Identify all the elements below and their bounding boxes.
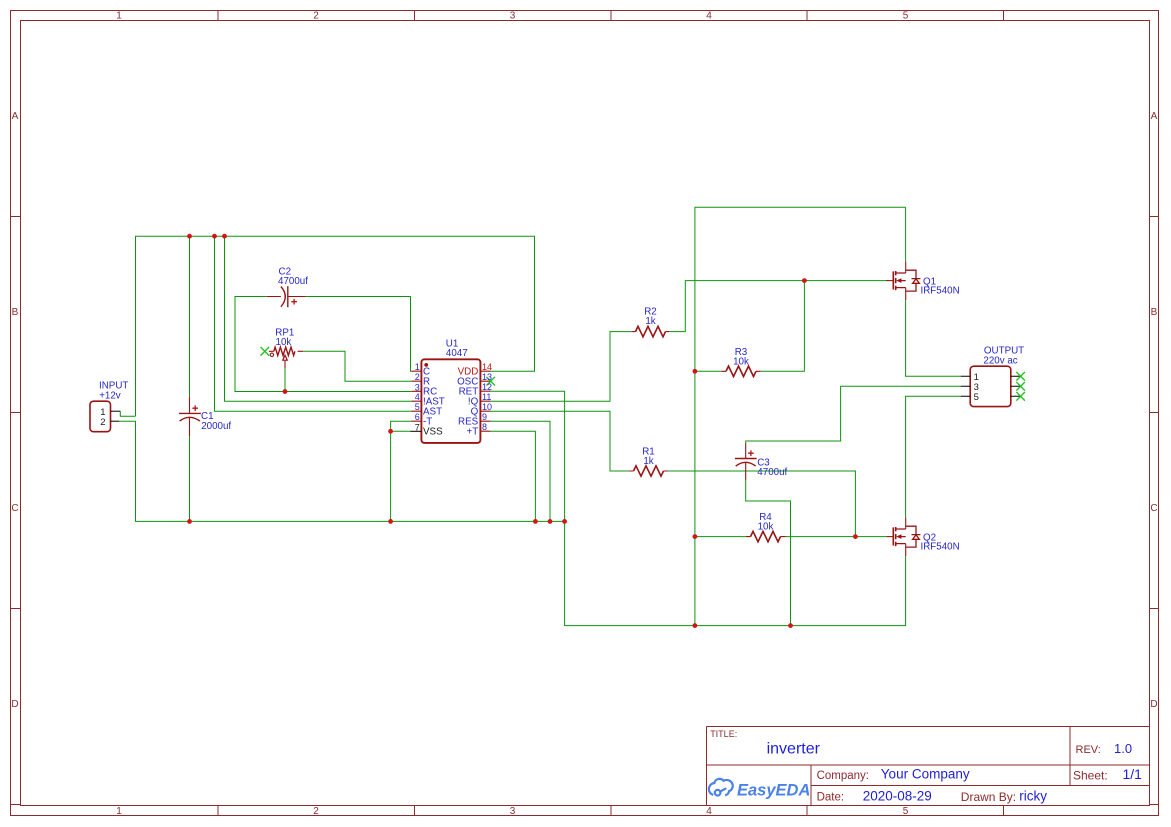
wire C3 bottom to GND rail (746, 480, 791, 625)
column labels top (116, 11, 909, 22)
svg-text:4: 4 (415, 392, 420, 402)
RP1 wiper arrow (283, 355, 288, 360)
svg-text:13: 13 (482, 372, 492, 382)
junction VSS gnd (388, 519, 393, 524)
Q2 drain stub (905, 517, 907, 529)
svg-text:2020-08-29: 2020-08-29 (863, 788, 932, 803)
wire R1 right to Q2 gate net (668, 471, 856, 537)
capacitor C1 plates (179, 412, 201, 414)
capacitor C3 plus sign (748, 450, 754, 456)
Q1 contacts (896, 273, 906, 288)
Q1 drain stub (905, 262, 907, 273)
transistor Q2 (886, 517, 920, 556)
svg-text:3: 3 (415, 382, 420, 392)
wire INPUT pin1 jog (120, 411, 135, 416)
resistor R4 leads (746, 536, 786, 538)
capacitor C2 plus sign (291, 299, 297, 305)
svg-text:Drawn By:: Drawn By: (961, 790, 1016, 804)
svg-text:11: 11 (482, 392, 491, 402)
junction R4 left (693, 534, 698, 539)
row labels right (1150, 111, 1157, 710)
wire U1 pin4 to +12V rail (225, 236, 412, 401)
OUTPUT right stubs (1011, 376, 1021, 396)
RP1 pin1 circle (270, 353, 273, 356)
svg-text:14: 14 (482, 362, 492, 372)
junction pin4 rail (222, 234, 227, 239)
svg-text:1.0: 1.0 (1114, 741, 1132, 756)
resistor R2 zigzag (636, 326, 666, 336)
junction Q2 gate R1 (853, 534, 858, 539)
wire U1 pin5 to +12V rail (215, 236, 412, 411)
svg-text:IRF540N: IRF540N (921, 542, 960, 553)
junction pin9 gnd (548, 519, 553, 524)
Q1 gate lead (886, 280, 893, 282)
svg-text:2: 2 (313, 806, 319, 817)
U1 pin 7 stub (410, 430, 421, 432)
Q1 channel segments (895, 271, 897, 290)
svg-text:1: 1 (116, 806, 122, 817)
resistor R4 zigzag (751, 531, 781, 541)
capacitor C2 plates (287, 286, 289, 307)
svg-text:D: D (11, 699, 18, 710)
svg-text:2: 2 (415, 372, 420, 382)
svg-text:IRF540N: IRF540N (921, 286, 960, 297)
svg-text:4: 4 (706, 806, 712, 817)
svg-text:5: 5 (903, 806, 909, 817)
Q1 gate bar (892, 271, 894, 289)
wire R3 right up to Q1 gate (761, 281, 805, 372)
svg-text:C: C (11, 503, 18, 514)
svg-text:9: 9 (482, 412, 487, 422)
INPUT pin 2 stub (111, 420, 120, 422)
svg-text:A: A (1151, 111, 1158, 122)
wire C1 top (189, 236, 191, 396)
wire +12V top rail with pin14 branch (136, 236, 535, 416)
OUTPUT no-connect X pin1 (1016, 372, 1025, 381)
Q2 contacts (896, 529, 906, 544)
column labels bottom (116, 806, 909, 817)
capacitor C1 plus sign (192, 405, 198, 411)
svg-text:VSS: VSS (423, 427, 443, 438)
U1 pin13 no-connect X (486, 377, 495, 386)
svg-text:4700uf: 4700uf (757, 467, 787, 478)
capacitor C2 leads (267, 296, 306, 298)
wire U1 pin10 Q to R1 left (491, 411, 630, 471)
EasyEDA logo (709, 779, 733, 796)
svg-text:1k: 1k (645, 316, 655, 327)
svg-text:5: 5 (903, 11, 909, 22)
svg-text:ricky: ricky (1019, 788, 1047, 803)
svg-text:inverter: inverter (767, 741, 821, 758)
svg-text:VDD: VDD (458, 367, 479, 378)
svg-text:2000uf: 2000uf (201, 421, 231, 432)
potentiometer RP1 zigzag (274, 347, 295, 355)
svg-text:6: 6 (415, 412, 420, 422)
svg-text:10k: 10k (733, 356, 749, 367)
svg-text:10: 10 (482, 402, 492, 412)
OUTPUT no-connect X pin3 (1016, 382, 1025, 391)
Q2 source stub (905, 544, 907, 557)
wire R4 right to Q2 gate (786, 536, 887, 538)
wire RP1 wiper to RC net (284, 369, 286, 392)
svg-text:D: D (1150, 699, 1157, 710)
wire U1 pin6 jog (391, 421, 412, 521)
capacitor C1 leads (189, 397, 191, 436)
wire U1 pin8 to GND (491, 431, 536, 521)
svg-text:1k: 1k (643, 456, 653, 467)
junction C3 bottom rail (788, 623, 793, 628)
svg-text:B: B (12, 307, 19, 318)
op-amp U1 body (421, 359, 480, 443)
transistor Q1 (886, 262, 920, 301)
wire OUTPUT pin3 to C3 top (746, 386, 961, 444)
potentiometer RP1 leads (269, 350, 303, 352)
U1 left pin names (423, 367, 445, 428)
wire HT rail top right and left vertical (695, 207, 906, 625)
svg-text:3: 3 (510, 806, 516, 817)
capacitor C3 plates (735, 458, 757, 460)
resistor R3 leads (721, 370, 761, 372)
junction lower rail left (693, 623, 698, 628)
junction pin12 gnd corner (562, 519, 567, 524)
svg-text:8: 8 (482, 422, 487, 432)
wire C1 bottom (189, 436, 191, 521)
svg-text:1: 1 (116, 11, 122, 22)
wire OUTPUT pin5 to Q2 drain (906, 396, 961, 517)
svg-text:Sheet:: Sheet: (1073, 768, 1108, 782)
svg-text:+12v: +12v (99, 391, 121, 402)
U1 right pin names (457, 377, 479, 438)
svg-text:Your Company: Your Company (881, 767, 970, 782)
wire R2 right up to Q1 gate (669, 281, 886, 332)
Q1 source stub (905, 288, 907, 301)
svg-text:7: 7 (415, 422, 420, 432)
svg-text:3: 3 (510, 11, 516, 22)
resistor R2 leads (632, 331, 670, 333)
wire R4 left (695, 536, 746, 538)
wire RC net C2 left / U1 pin3 (235, 297, 411, 392)
wire RP1 right to U1 pin2 (303, 351, 411, 381)
junction pin6 pin7 (388, 429, 393, 434)
svg-text:2: 2 (313, 11, 319, 22)
svg-text:2: 2 (100, 417, 105, 428)
Q2 body arrow (896, 534, 901, 539)
svg-text:REV:: REV: (1076, 744, 1101, 756)
svg-text:4047: 4047 (446, 348, 468, 359)
connector OUTPUT body (970, 366, 1011, 406)
wire Q1 source to OUTPUT pin1 (906, 300, 961, 376)
Q2 channel segments (895, 527, 897, 546)
junction pin5 rail (212, 234, 217, 239)
INPUT pin 1 stub (111, 410, 121, 412)
Q2 body diode (906, 526, 921, 547)
RP1 no-connect X (261, 347, 270, 356)
Q2 gate bar (892, 527, 894, 545)
junction R3 left (693, 369, 698, 374)
U1 pin1 marker dot (424, 363, 428, 367)
svg-text:4: 4 (706, 11, 712, 22)
U1 left pin numbers (415, 362, 420, 422)
svg-text:4700uf: 4700uf (278, 276, 308, 287)
title block lines (707, 727, 1150, 806)
svg-text:1: 1 (415, 362, 420, 372)
OUTPUT left stubs (961, 376, 970, 396)
resistor R1 leads (629, 470, 668, 472)
svg-text:10k: 10k (276, 337, 292, 348)
svg-text:B: B (1151, 307, 1158, 318)
OUTPUT no-connect X pin5 (1016, 392, 1025, 401)
row labels left (11, 111, 18, 710)
svg-text:Company:: Company: (817, 770, 869, 782)
svg-text:5: 5 (974, 392, 979, 403)
wire U1 pin11 !Q to R2 left (491, 332, 632, 402)
junction C1 bottom (187, 519, 192, 524)
wire C2 right to U1 pin1 (306, 297, 412, 372)
svg-text:A: A (12, 111, 19, 122)
junction RP1 wiper (283, 389, 288, 394)
wire Q1 drain (905, 207, 907, 261)
connector INPUT body (90, 401, 111, 432)
wire U1 pin9 to GND (491, 421, 551, 521)
Q1 body arrow (896, 278, 901, 283)
svg-text:10k: 10k (758, 522, 774, 533)
svg-text:220v ac: 220v ac (983, 355, 1017, 366)
wire GND: INPUT pin2 down, bottom rail, lower rail, to Q2 source (119, 421, 905, 625)
Q1 body diode (906, 270, 921, 291)
svg-text:5: 5 (415, 402, 420, 412)
U1 right pin numbers (482, 372, 492, 432)
resistor R1 zigzag (634, 466, 664, 476)
svg-text:C: C (1150, 503, 1157, 514)
U1 right pin stubs (480, 371, 490, 431)
svg-text:EasyEDA: EasyEDA (737, 782, 810, 800)
junction Q1 gate R3 (802, 278, 807, 283)
resistor R3 zigzag (726, 366, 756, 376)
wire U1 pin7 VSS (391, 430, 411, 432)
Q2 gate lead (886, 536, 893, 538)
svg-text:TITLE:: TITLE: (710, 729, 737, 739)
svg-text:Date:: Date: (817, 791, 845, 803)
svg-text:1/1: 1/1 (1123, 766, 1143, 782)
junction pin8 gnd (533, 519, 538, 524)
U1 left pin stubs (411, 371, 421, 421)
svg-text:12: 12 (482, 382, 492, 392)
svg-text:+T: +T (466, 427, 478, 438)
wire R3 left (695, 370, 721, 372)
capacitor C3 leads (745, 444, 747, 481)
junction C1 top (187, 234, 192, 239)
wire U1 pin12 to GND (491, 391, 565, 521)
